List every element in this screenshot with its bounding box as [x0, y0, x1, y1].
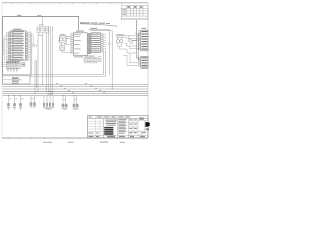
CN2 center pin boxes [87, 33, 91, 53]
aux box B1 [22, 63, 25, 67]
sensor B2 [60, 46, 65, 51]
drawing number dense block [104, 127, 113, 135]
wires into CN4 [125, 36, 140, 49]
title block [88, 116, 150, 139]
CN1 right pin boxes [25, 32, 28, 61]
wire label on top run [17, 15, 22, 16]
CN5 wires [123, 53, 139, 65]
CN2 label above left [76, 31, 84, 32]
TS1 label above [8, 59, 18, 60]
left border line [1, 3, 3, 138]
connector CN1 (left large block) [8, 29, 28, 61]
connector CN4 [139, 30, 148, 51]
connector CB1 [30, 102, 36, 105]
bottom border fold ticks [8, 137, 68, 139]
revision table [88, 119, 104, 138]
company name block [105, 120, 117, 126]
two boxes right of table [98, 57, 101, 59]
logo arrow black [145, 122, 149, 127]
CN1 pin marks [9, 32, 27, 60]
CN2 label above right [91, 28, 98, 29]
motor wires [58, 36, 71, 52]
TS1 cell text [7, 62, 18, 63]
TB1 header text [127, 6, 142, 8]
ignition switch S1 (box+circle) [41, 26, 44, 33]
relay coil stubs [118, 37, 136, 53]
wire: CN2 drop pair to rails [102, 51, 104, 75]
terminal table TB1 top right [121, 5, 148, 19]
CN2 left pin boxes [71, 33, 74, 53]
bus stub box [48, 92, 53, 95]
terminal strip TS1 [1, 59, 20, 72]
top border zone ticks [13, 3, 122, 4]
connector CN5 [123, 53, 148, 68]
wire: drop from TB1 to CN4 area [135, 20, 137, 31]
connector CN4 label [141, 28, 146, 29]
gauge G2 (box+circle) [45, 27, 48, 33]
logo text under arrow [146, 129, 149, 130]
label CN3 text below block [74, 55, 83, 58]
label above switch group [39, 23, 44, 26]
small table below CN3 [84, 57, 97, 63]
wire: riser lower half to rail [109, 45, 111, 75]
TS1 left stubs [1, 62, 6, 66]
CN1 left pin boxes [8, 32, 11, 61]
relay K2 coils [116, 40, 119, 43]
CN2 center pin marks [88, 34, 91, 54]
top border line [2, 2, 148, 4]
CN2 row text right [92, 34, 100, 52]
resistor pair drops [31, 96, 35, 103]
arrow mark on drop [136, 22, 138, 24]
CN2 right pin boxes [101, 33, 104, 51]
TB1 cell text [122, 9, 126, 15]
footer text under border [43, 142, 125, 143]
ground drops left group [9, 96, 21, 104]
control unit ECU [3, 76, 30, 84]
junction ring on riser [109, 43, 111, 45]
right border line [147, 3, 149, 138]
junction dots [136, 33, 137, 34]
junction node 4 [32, 44, 35, 47]
gauge G1 (box+circle) [37, 27, 40, 33]
title top row [88, 118, 149, 120]
notes text column [118, 119, 126, 133]
wires: CN1 right pin stubs [28, 32, 34, 59]
connector CN2 left half [71, 28, 112, 89]
drop labels [9, 98, 23, 101]
wire bundle label band [80, 24, 118, 26]
wires: CN1 left pin stubs [3, 32, 8, 61]
CN2 row text left [74, 34, 81, 54]
motor M1 M2 [58, 34, 71, 52]
CN2 right half [91, 33, 101, 53]
wire bundle: CN1 to bus verticals [30, 31, 38, 93]
ground pair G1 [63, 96, 77, 104]
wire pair risers far right [135, 23, 137, 58]
relay K2 label box [117, 34, 125, 37]
CN1 row text [12, 31, 24, 60]
TS1 pin squares [7, 69, 17, 70]
middle cells [129, 119, 149, 138]
wire number labels on bus [56, 83, 105, 93]
wires from switch group [38, 17, 53, 94]
wire rail R2 [30, 76, 106, 78]
aux coil Y1 [128, 39, 131, 42]
TS1 pin drops [8, 70, 17, 72]
bottom border line [2, 137, 148, 139]
junction dots on bus [8, 84, 113, 96]
connector CB2 four pins [44, 96, 53, 103]
wires: CN2 right pins out [103, 34, 106, 49]
wire rail R1 [3, 74, 104, 76]
bus lines [3, 84, 148, 89]
lamp E1 E2 E3 [7, 103, 22, 106]
relay K1 inside [12, 77, 18, 83]
CN1 label [13, 29, 22, 30]
wire: harness top run [3, 17, 79, 76]
CN1 pin number marks left column [12, 32, 14, 57]
wire across top of CN2 right to riser [89, 29, 110, 43]
